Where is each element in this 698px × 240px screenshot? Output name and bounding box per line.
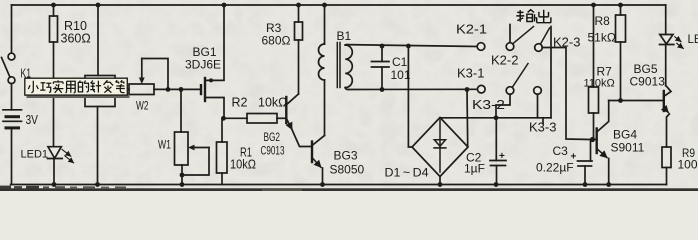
label LED1 [21, 149, 49, 161]
wire: battery minus to bottom rail [11, 128, 13, 185]
wire: LED1 to bottom rail [53, 159, 55, 185]
node: top rail at R8 [618, 3, 623, 8]
label BG4 S9011 [611, 128, 645, 155]
svg-text:S9011: S9011 [611, 141, 645, 155]
wire: junction down to W1 top [180, 89, 182, 132]
wire: K1 to battery [11, 84, 13, 110]
node: bottom rail at C2 [494, 182, 499, 187]
node: bottom rail at LED1 [52, 182, 57, 187]
wire: top wire down to bridge left vertex [408, 46, 412, 147]
label R8 51k [588, 14, 616, 45]
wire: bridge DC+ wire to switches [440, 117, 551, 119]
label BG5 C9013 [630, 62, 666, 89]
wire: bridge bottom to rail [439, 177, 441, 185]
node: W1 branch junction [179, 87, 184, 92]
label W2 [136, 101, 149, 113]
transistor BG4 [593, 101, 609, 185]
node: bottom rail at C3 [583, 182, 588, 187]
svg-text:C9013: C9013 [261, 144, 285, 158]
node: C2 junction on DC+ wire [494, 115, 499, 120]
svg-text:K3-3: K3-3 [529, 120, 556, 135]
svg-text:BG2: BG2 [264, 130, 281, 144]
wire: top rail down to hidden component [97, 5, 99, 76]
battery GB 3V [3, 110, 22, 128]
svg-text:R7: R7 [597, 65, 613, 79]
svg-text:10kΩ: 10kΩ [258, 96, 288, 110]
node: wiper tie junction [166, 87, 171, 92]
LED LED1 [48, 147, 74, 163]
wire: W2 wiper loop with arrow [139, 59, 168, 90]
resistor R3 [295, 5, 303, 94]
svg-text:K3-2: K3-2 [472, 97, 505, 112]
svg-text:+: + [499, 151, 505, 162]
wire: W1 wiper arrow tied to bottom terminal [183, 145, 209, 175]
svg-text:C3: C3 [553, 144, 569, 158]
wire: output left stub [509, 25, 511, 43]
wire: left branch from top rail to switch K1 [11, 5, 13, 53]
node: bottom rail at BG4 emitter [606, 182, 611, 187]
resistor R7 [589, 5, 599, 140]
switch contact K2-2 upper left [506, 43, 514, 51]
wire: R10 down to LED1 (passes behind title box) [53, 42, 55, 147]
node: bridge AC branch on bottom wire [465, 87, 470, 92]
wire: bottom ground rail [11, 184, 667, 186]
capacitor C3 [578, 140, 593, 185]
capacitor C1 [372, 46, 390, 90]
svg-text:S8050: S8050 [330, 163, 365, 177]
title box: small practical acupuncture pen [25, 78, 130, 98]
transformer B1 [319, 5, 353, 90]
potentiometer W2 body [129, 84, 154, 95]
node: W1 bottom tie [180, 173, 185, 178]
wire: W1 bottom to rail [181, 165, 183, 185]
svg-text:1µF: 1µF [464, 162, 485, 176]
svg-text:BG3: BG3 [334, 149, 358, 163]
node: top rail junction at R10 [51, 3, 56, 8]
switch lever K3-2 [512, 64, 528, 88]
wire: K3-3 stub [542, 118, 544, 124]
svg-text:K2-3: K2-3 [553, 35, 580, 50]
resistor R9 [662, 147, 671, 185]
node: bottom rail at BG3 emitter [320, 182, 325, 187]
node: top rail at BG1 drain [222, 3, 227, 8]
hidden component box behind title [85, 76, 115, 107]
label K2-2 [491, 53, 518, 68]
svg-text:R8: R8 [595, 14, 611, 28]
label K3-3 [529, 120, 556, 135]
wire: hidden component to bottom rail [97, 107, 99, 185]
wire: top supply rail [12, 4, 666, 6]
label B1 [337, 29, 352, 43]
transistor BG3 [312, 136, 325, 185]
resistor R8 [616, 5, 626, 101]
wire: BG4 collector to BG5 base [609, 100, 663, 102]
label C1 101 [391, 55, 411, 82]
wire: right contact to BG4 base feed [542, 48, 590, 140]
svg-text:LED2: LED2 [688, 34, 698, 46]
label K3-1 [457, 66, 484, 81]
svg-text:110kΩ: 110kΩ [584, 78, 615, 90]
wire: lower-right contact to DC wire [537, 94, 539, 118]
label R9 100 [678, 146, 698, 172]
label C3 plus [571, 152, 577, 163]
switch K1 [2, 53, 15, 83]
svg-text:0.22µF: 0.22µF [536, 161, 574, 175]
svg-text:BG4: BG4 [613, 128, 637, 142]
label R10 360 ohm [61, 19, 91, 46]
label R1 10k [230, 146, 256, 172]
svg-text:C1: C1 [392, 55, 408, 69]
node: top rail at R7 [591, 3, 596, 8]
svg-text:3V: 3V [26, 113, 39, 127]
node: C1 top [380, 44, 385, 49]
label C3 0.22uF [536, 144, 574, 175]
svg-text:10kΩ: 10kΩ [230, 158, 256, 172]
svg-text:K2-1: K2-1 [456, 22, 487, 37]
transistor BG5 [664, 86, 671, 148]
svg-text:C9013: C9013 [630, 75, 666, 89]
wire: W2 right terminal to BG1 gate [154, 88, 200, 90]
label C2 plus [499, 151, 505, 162]
node: top rail at B1 primary [322, 3, 327, 8]
LED LED2 [660, 5, 684, 86]
label BG2 C9013 [261, 130, 285, 158]
node: bottom rail at bridge [438, 182, 443, 187]
svg-text:51kΩ: 51kΩ [588, 31, 616, 45]
label R3 680 ohm [262, 21, 291, 48]
switch lever K2-2 upper [513, 27, 534, 44]
wire: lower-left contact to DC wire [496, 94, 510, 118]
label R2 10k [232, 96, 288, 110]
wire: DC+ up to K2-3 terminal [550, 27, 552, 118]
capacitor C2 [490, 118, 506, 185]
switch lever K2 right [541, 28, 550, 44]
label BG1 3DJ6E [185, 45, 221, 72]
label output (shu chu) [516, 10, 551, 23]
node: BG4 base junction [590, 137, 595, 142]
svg-text:680Ω: 680Ω [262, 34, 291, 48]
svg-text:K2-2: K2-2 [491, 53, 518, 68]
svg-text:100: 100 [678, 158, 698, 172]
label W1 [158, 140, 171, 152]
label K1 [21, 67, 32, 81]
wire: secondary bottom to K3-1 [348, 88, 478, 90]
potentiometer W1 body [175, 132, 189, 165]
label BG3 S8050 [330, 149, 365, 177]
wire: secondary top rail to K2-1 [347, 45, 477, 47]
svg-text:W2: W2 [136, 101, 149, 113]
svg-text:K3-1: K3-1 [457, 66, 484, 81]
bridge rectifier D1-D4 [412, 118, 468, 177]
transistor BG1 (FET) [201, 5, 224, 118]
svg-text:3DJ6E: 3DJ6E [185, 58, 221, 72]
label D1~D4 [385, 166, 429, 180]
label K3-2 [472, 97, 505, 112]
node: BG1 source junction [221, 116, 226, 121]
label K2-1 [456, 22, 487, 37]
terminal K2-1 [477, 43, 485, 51]
svg-text:R2: R2 [232, 96, 248, 110]
switch contact K3 lower right [534, 87, 542, 95]
label K2-3 [553, 35, 580, 50]
label C2 1uF [464, 151, 485, 176]
node: bottom rail at W1 [180, 182, 185, 187]
wire: hidden component to W2 left terminal [115, 88, 129, 90]
wire: bottom wire down to bridge right vertex (crosses DC wire) [466, 90, 469, 147]
label LED2 (clipped at edge) [688, 34, 698, 46]
label R7 110k [597, 65, 613, 79]
transistor BG2 [286, 94, 311, 147]
title glyphs [28, 80, 125, 93]
resistor R10 [50, 5, 58, 42]
svg-text:D1 ~ D4: D1 ~ D4 [385, 166, 429, 180]
svg-text:B1: B1 [337, 29, 352, 43]
node: R8 to BG5 base wire [618, 98, 623, 103]
resistor R2 [223, 114, 286, 124]
node: C1 bottom [380, 87, 385, 92]
svg-text:LED1: LED1 [21, 149, 49, 161]
label 3V [26, 113, 39, 127]
terminal K3-1 [478, 85, 486, 93]
svg-text:360Ω: 360Ω [61, 32, 91, 46]
node: bottom rail at hidden component [95, 182, 100, 187]
switch contact K2 upper right [535, 44, 543, 52]
svg-text:W1: W1 [158, 140, 171, 152]
node: bridge AC branch on top wire [406, 44, 411, 49]
node: top rail at R3 [296, 3, 301, 8]
wire: BG3 collector to transformer primary [324, 80, 326, 136]
resistor R1 [217, 118, 228, 184]
node: top rail junction at hidden component [96, 3, 101, 8]
switch contact K3-2 lower left [506, 87, 514, 95]
